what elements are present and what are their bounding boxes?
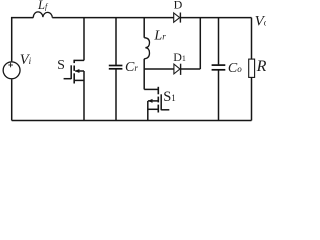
wire top middle bbox=[52, 17, 173, 19]
wire bottom bbox=[12, 120, 252, 122]
svg-text:Co: Co bbox=[228, 61, 242, 76]
resistor R bbox=[249, 59, 255, 77]
capacitor Co top wire bbox=[218, 18, 220, 65]
transistor S1 channel bar (dashed) bbox=[157, 87, 159, 113]
wire R to bottom bbox=[251, 77, 253, 120]
diode D1 bbox=[174, 64, 181, 75]
transistor S1 arrowhead bbox=[148, 99, 153, 103]
transistor S1 body arrow stub bbox=[148, 100, 158, 102]
svg-text:S: S bbox=[57, 58, 65, 73]
transistor S1 gate bar bbox=[160, 94, 162, 110]
wire right edge down to R bbox=[251, 18, 253, 60]
svg-text:Vi: Vi bbox=[20, 52, 32, 68]
transistor S gate bar bbox=[70, 65, 72, 79]
wire top right bbox=[180, 17, 251, 19]
transistor S1 drain stub bbox=[144, 88, 158, 90]
wire D1 cathode to riser bbox=[181, 68, 201, 70]
transistor S channel bar (dashed) bbox=[73, 60, 75, 84]
transistor S1 source corner rail bbox=[147, 101, 149, 121]
svg-text:D1: D1 bbox=[173, 50, 186, 64]
transistor S source rail down bbox=[83, 71, 85, 121]
svg-text:Vo: Vo bbox=[255, 14, 266, 30]
svg-text:Lr: Lr bbox=[153, 28, 166, 43]
wire top left segment bbox=[12, 18, 34, 62]
svg-text:Cr: Cr bbox=[125, 60, 138, 75]
source Vi circle bbox=[3, 62, 20, 79]
inductor Lf bbox=[33, 12, 52, 18]
svg-text:S1: S1 bbox=[163, 89, 176, 105]
capacitor Cr top wire bbox=[115, 18, 117, 65]
wire Lr bottom to S1 drain bbox=[143, 59, 145, 90]
capacitor Co plates bbox=[212, 65, 226, 70]
transistor S drain riser bbox=[83, 18, 85, 61]
svg-text:Lf: Lf bbox=[37, 0, 49, 12]
source Vi plus sign bbox=[8, 63, 13, 68]
diode D bbox=[174, 13, 181, 23]
transistor S1 source stub bbox=[148, 108, 158, 110]
svg-text:D: D bbox=[174, 0, 183, 12]
capacitor Cr plates bbox=[109, 66, 123, 69]
transistor S arrowhead bbox=[75, 69, 80, 73]
inductor Lr coils bbox=[144, 38, 149, 59]
wire mid node to D1 anode bbox=[144, 68, 174, 70]
svg-text:R: R bbox=[256, 58, 266, 75]
capacitor Co bottom wire bbox=[218, 71, 220, 121]
transistor S drain stub bbox=[75, 59, 85, 61]
transistor S body arrow stub bbox=[75, 70, 84, 72]
wire D1 riser to top bbox=[199, 18, 201, 69]
capacitor Cr bottom wire bbox=[115, 70, 117, 121]
transistor S gate lead bbox=[64, 78, 72, 80]
transistor S source stub bbox=[75, 79, 85, 81]
wire left lower bbox=[11, 79, 13, 120]
transistor S1 gate lead bbox=[161, 109, 169, 111]
wire Lr top lead bbox=[143, 18, 145, 38]
